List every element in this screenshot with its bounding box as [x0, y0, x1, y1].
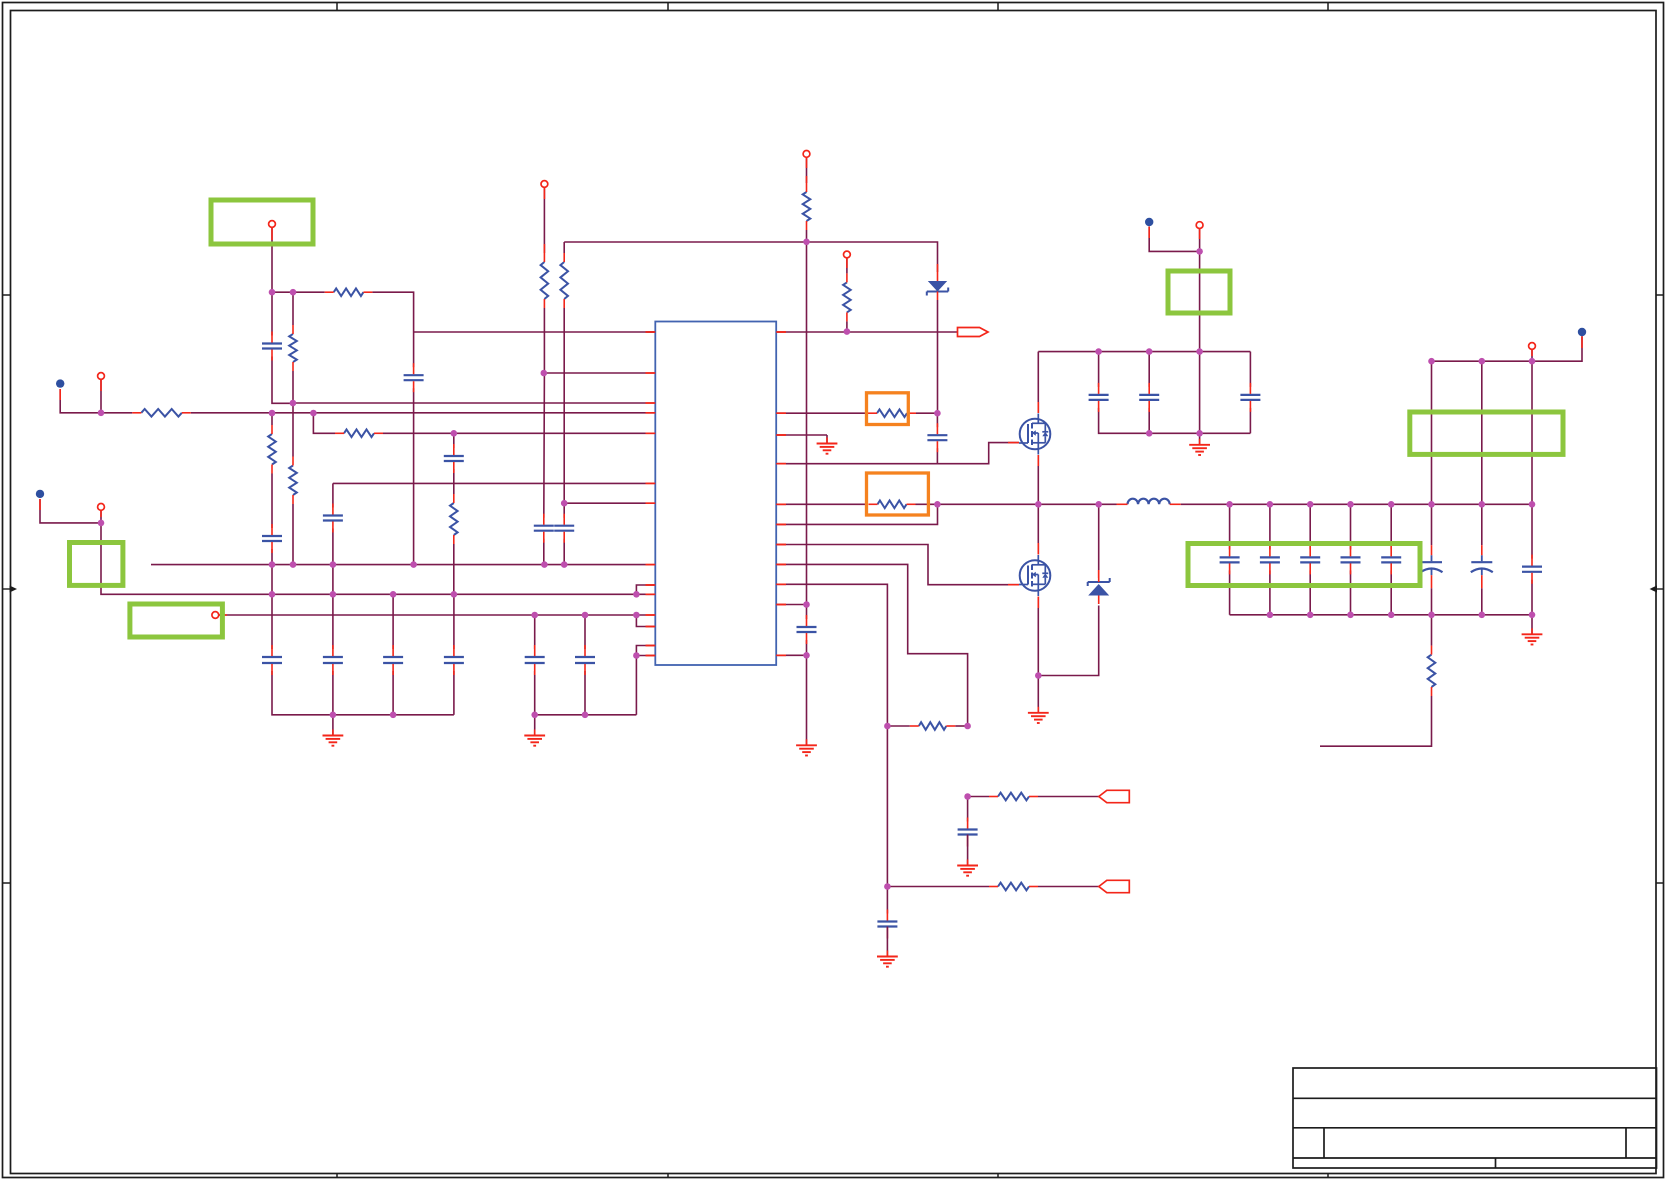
node N4: [1578, 328, 1586, 336]
capless resistor R11: [843, 282, 851, 312]
wire bankcap2 top: [1269, 504, 1271, 549]
pin PC7: [844, 251, 851, 258]
wire x534 v: [534, 615, 536, 649]
highlight box C: [130, 604, 223, 637]
wire SS net: [414, 331, 646, 333]
capacitor C3: [323, 514, 343, 516]
junction J17: [269, 591, 276, 598]
wire net1 pin stub: [646, 412, 656, 414]
pin PC5: [541, 181, 548, 188]
wire x967 cap: [967, 797, 969, 822]
wire x272 cap: [271, 594, 273, 649]
junction J66: [1529, 612, 1536, 619]
wire out1 net: [968, 796, 989, 798]
capacitor C23: [1300, 556, 1320, 558]
wire bankcap4 top: [1350, 504, 1352, 549]
junction J62: [1347, 612, 1354, 619]
junction J46: [1146, 430, 1153, 437]
junction J29: [582, 712, 589, 719]
highlight box G: [867, 393, 909, 425]
junction J31: [844, 328, 851, 335]
capacitor C8: [262, 656, 282, 658]
wire vin down: [1199, 251, 1201, 433]
wire lg net: [776, 545, 1019, 585]
op-amp U1 regulator IC body: [655, 322, 776, 666]
resistor R15: [919, 722, 946, 730]
resistor R13: [877, 409, 907, 417]
wire net2 pin stub: [646, 593, 656, 595]
junction J25: [633, 652, 640, 659]
wire out2 net: [887, 886, 989, 888]
wire out1 net2: [1038, 796, 1099, 798]
junction J37: [964, 723, 971, 730]
wire loop v1: [271, 292, 273, 335]
junction J58: [1479, 358, 1486, 365]
junction J54: [1428, 501, 1435, 508]
junction J26: [330, 712, 337, 719]
junction J33: [803, 652, 810, 659]
wire hook3: [636, 646, 655, 656]
wire out right top: [1531, 349, 1533, 361]
port P1: [958, 328, 989, 337]
resistor R17: [998, 883, 1029, 891]
node N2: [36, 490, 44, 498]
capless resistor R5: [268, 434, 276, 465]
wire q1 source: [1037, 455, 1039, 504]
pin PC2: [98, 373, 105, 380]
wire x907 net: [776, 564, 967, 726]
junction J39: [884, 883, 891, 890]
wire outcap bot: [1531, 580, 1533, 615]
capacitor C1: [262, 342, 282, 344]
wire vsense1b: [955, 725, 967, 727]
highlight box B: [70, 543, 123, 586]
capacitor C19: [1139, 394, 1159, 396]
capless resistor R10: [803, 192, 811, 221]
wire x313: [313, 413, 335, 433]
wire x806 gnd: [806, 640, 808, 655]
junction J19: [390, 591, 397, 598]
ground GND2: [534, 715, 536, 736]
wire x887 cap: [886, 887, 888, 914]
wire vin stem: [1199, 229, 1201, 252]
wire vsense1: [887, 725, 909, 727]
wire vin cap2b: [1148, 408, 1150, 433]
junction J55: [1479, 501, 1486, 508]
wire port3 stem: [271, 227, 273, 292]
capless resistor R9: [560, 262, 568, 299]
wire rt net: [776, 412, 866, 414]
junction J60: [1267, 612, 1274, 619]
wire x887 low: [886, 726, 888, 887]
pin PC1: [269, 221, 276, 228]
capacitor C21: [1220, 556, 1240, 558]
title block: [1293, 1068, 1657, 1168]
wire pin vcc2: [776, 604, 806, 606]
wire x564 low: [563, 539, 565, 565]
junction J42: [1035, 672, 1042, 679]
wire port1 stem: [100, 380, 102, 413]
wire bankcap4 bot: [1350, 570, 1352, 614]
capacitor C22: [1260, 556, 1280, 558]
wire x332 v: [332, 483, 334, 507]
junction J45: [1196, 348, 1203, 355]
capacitor C20: [1240, 394, 1260, 396]
wire sw bus: [916, 503, 1117, 505]
capacitor C9: [323, 656, 343, 658]
junction J12: [290, 561, 297, 568]
ground GND1: [332, 715, 334, 736]
junction J30: [803, 239, 810, 246]
wire loop v1b: [272, 357, 293, 404]
highlight box H: [867, 473, 929, 515]
wire hook4 down: [635, 656, 637, 715]
wire x937 low: [936, 448, 938, 464]
wire x413 low: [413, 388, 415, 564]
junction J51: [1307, 501, 1314, 508]
junction J52: [1347, 501, 1354, 508]
junction J34: [934, 410, 941, 417]
pin stubs right: [776, 331, 786, 333]
wire out2 net2: [1038, 886, 1099, 888]
wire out bottom bus: [1230, 614, 1532, 616]
wire vcc bus top: [564, 242, 937, 272]
wire vin cap3: [1249, 352, 1251, 387]
ground GND6: [1199, 433, 1201, 445]
wire x534 gnd: [535, 671, 637, 715]
polarized capacitor C27: [1471, 561, 1492, 563]
ground GND4: [806, 655, 808, 745]
wire bankcap1 bot: [1229, 570, 1231, 614]
junction J24: [633, 612, 640, 619]
wire vin cap3b: [1249, 408, 1251, 433]
wire x413 cap: [413, 332, 415, 367]
pin PC4: [212, 612, 219, 619]
junction J22: [531, 612, 538, 619]
pin PC8: [1196, 222, 1203, 229]
junction J1: [269, 289, 276, 296]
resistor R2: [334, 288, 364, 296]
wire q1 drain: [1037, 352, 1039, 413]
border zone ticks: [336, 3, 338, 11]
wire vin cap1: [1098, 352, 1100, 387]
pin PC3: [98, 504, 105, 511]
capacitor C18: [1089, 394, 1109, 396]
wire port4 stem: [543, 187, 545, 253]
wire x332 elbow: [333, 482, 646, 484]
wire vout elbow: [1432, 336, 1583, 361]
wire x393 gnd: [392, 671, 394, 715]
wire q2 drain: [1037, 504, 1039, 554]
wire x1431 v: [1431, 361, 1433, 504]
highlight box E: [1410, 412, 1563, 454]
capacitor C24: [1341, 556, 1361, 558]
junction J41: [1095, 501, 1102, 508]
junction J16: [561, 561, 568, 568]
junction J61: [1307, 612, 1314, 619]
capacitor C7: [554, 525, 574, 527]
resistor R3: [344, 430, 374, 438]
wire vin cap2: [1148, 352, 1150, 387]
wire x453 cap: [453, 433, 455, 448]
border centering arrow right: [1650, 586, 1658, 593]
junction J3: [98, 410, 105, 417]
wire x806 main: [806, 230, 808, 619]
capacitor C6: [534, 525, 554, 527]
wire x585 v: [584, 615, 586, 649]
wire loop right: [372, 292, 413, 332]
junction J48: [1196, 248, 1203, 255]
junction J21: [633, 591, 640, 598]
capless resistor R6: [289, 466, 297, 495]
capless resistor R8: [541, 262, 549, 299]
wire polcap2 bot: [1481, 588, 1483, 615]
inductor L1: [1128, 499, 1170, 505]
wire port2 stem: [100, 511, 102, 523]
wire x453 mid: [453, 469, 455, 494]
capacitor C25: [1381, 556, 1401, 558]
pin stubs left: [646, 331, 656, 333]
resistor R1: [141, 409, 182, 417]
capless resistor R12: [1428, 655, 1436, 687]
junction J64: [1428, 612, 1435, 619]
junction J6: [541, 370, 548, 377]
junction J43: [1095, 348, 1102, 355]
border centering arrow left: [10, 586, 18, 593]
wire x585 gnd: [584, 671, 586, 715]
wire vin bus: [1038, 351, 1250, 353]
wire x564 mid: [563, 308, 565, 518]
capacitor C15: [927, 434, 947, 436]
capless resistor R7: [450, 503, 458, 535]
wire port7 stem: [846, 258, 848, 274]
wire sw bus2: [1181, 503, 1532, 505]
wire x293 v: [292, 292, 294, 325]
wire bankcap2 bot: [1269, 570, 1271, 614]
wire net1 mid: [191, 412, 646, 414]
junction J53: [1388, 501, 1395, 508]
wire hook2: [636, 615, 655, 627]
wire loop top: [272, 291, 325, 293]
junction J2: [290, 289, 297, 296]
wire zener1 low: [937, 300, 939, 413]
wire pin hook937: [776, 504, 937, 524]
resistor R14: [878, 501, 907, 509]
capacitor C5: [444, 455, 464, 457]
wire FB net: [293, 402, 646, 404]
wire zener2 low: [1038, 606, 1098, 676]
wire x332 cap2: [332, 594, 334, 649]
wire x332 gnd2: [332, 671, 334, 715]
wire bankcap5 bot: [1390, 570, 1392, 614]
zener diode D2: [1088, 581, 1110, 583]
wire hook1: [636, 585, 655, 594]
wire x1482 v: [1481, 361, 1483, 504]
junction J56: [1529, 501, 1536, 508]
capacitor C10: [383, 656, 403, 658]
resistor R16: [998, 793, 1029, 801]
wire x453 cap2: [453, 594, 455, 649]
wire bankcap5 top: [1390, 504, 1392, 549]
wire x272 low: [271, 549, 273, 594]
wire R5 bottom: [271, 474, 273, 529]
junction J35: [934, 501, 941, 508]
capacitor C14: [797, 626, 817, 628]
junction J23: [582, 612, 589, 619]
wire x887 net: [776, 584, 887, 726]
capacitor C2: [262, 535, 282, 537]
wire net1 to pin: [101, 412, 132, 414]
junction J11: [269, 561, 276, 568]
junction J57: [1428, 358, 1435, 365]
wire x272 r5top: [271, 413, 273, 425]
junction J65: [1479, 612, 1486, 619]
port P2: [1099, 790, 1130, 802]
wire pin agnd: [776, 654, 806, 656]
junction J47: [1196, 430, 1203, 437]
junction J38: [964, 793, 971, 800]
junction J7: [451, 430, 458, 437]
wire outcap top: [1531, 504, 1533, 558]
transistor Q2: [1020, 560, 1051, 591]
capacitor C17: [877, 920, 897, 922]
junction J14: [410, 561, 417, 568]
wire boot net: [776, 331, 957, 333]
junction J10: [98, 520, 105, 527]
wire bus564: [151, 564, 646, 566]
junction J50: [1267, 501, 1274, 508]
junction J32: [803, 601, 810, 608]
wire vin dot elbow: [1149, 227, 1199, 252]
highlight box A: [211, 200, 313, 244]
ground GND9: [967, 835, 969, 866]
junction J4: [269, 410, 276, 417]
wire bankcap3 bot: [1309, 570, 1311, 614]
junction J20: [451, 591, 458, 598]
wire x393 v: [392, 594, 394, 649]
wire x332 low: [332, 529, 334, 595]
junction J15: [541, 561, 548, 568]
capacitor C11: [444, 656, 464, 658]
junction J59: [1529, 358, 1536, 365]
pin PC6: [803, 151, 810, 158]
wire comp2 net: [776, 443, 1019, 464]
wire x1532 v: [1531, 361, 1533, 504]
junction J49: [1226, 501, 1233, 508]
wire port5 lead: [219, 614, 646, 616]
capacitor C16: [958, 828, 978, 830]
wire hook4: [636, 655, 655, 657]
junction J18: [330, 591, 337, 598]
wire en net: [544, 372, 646, 374]
wire polcap1 top: [1431, 504, 1433, 545]
wire gnd pin net: [776, 434, 827, 436]
node N3: [1145, 218, 1153, 226]
wire x293 mid: [292, 371, 294, 457]
wire bankcap3 top: [1309, 504, 1311, 549]
capacitor C12: [525, 656, 545, 658]
wire feedback tail: [1320, 696, 1432, 746]
wire q2 source: [1037, 597, 1039, 676]
junction J27: [390, 712, 397, 719]
junction J28: [531, 712, 538, 719]
wire x544 mid: [543, 308, 546, 518]
junction J63: [1388, 612, 1395, 619]
wire x272 gnd: [272, 671, 454, 715]
wire x564 res: [563, 242, 565, 253]
wire x544 low: [543, 539, 545, 565]
polarized capacitor C26: [1421, 561, 1442, 563]
ground GND3: [826, 435, 828, 444]
capacitor C28: [1522, 565, 1542, 567]
zener diode D1: [928, 281, 947, 292]
wire VIN1 elbow: [60, 389, 101, 413]
wire polcap2 top: [1481, 504, 1483, 545]
capless resistor R4: [289, 334, 297, 362]
wire zener2 v: [1098, 504, 1100, 570]
wire ilim net: [776, 503, 866, 505]
node N1: [56, 379, 64, 387]
junction J5: [310, 410, 317, 417]
wire net2 down: [101, 523, 646, 594]
wire R11 low: [846, 321, 848, 331]
capacitor C13: [575, 656, 595, 658]
highlight box F: [1188, 544, 1420, 586]
wire feedback res: [1431, 615, 1433, 646]
junction J40: [1035, 501, 1042, 508]
wire x453 low: [453, 544, 455, 594]
wire vcc pin net: [564, 502, 645, 504]
capacitor C4: [404, 374, 424, 376]
highlight box D: [1168, 271, 1230, 313]
transistor Q1: [1020, 419, 1051, 450]
wire SS pin stub: [646, 331, 656, 333]
pin PC9: [1529, 343, 1536, 350]
junction J44: [1146, 348, 1153, 355]
junction J9: [561, 500, 568, 507]
wire polcap1 bot: [1431, 588, 1433, 615]
ground GND7: [1531, 615, 1533, 635]
junction J36: [884, 723, 891, 730]
wire vin cap1b: [1099, 408, 1251, 433]
port P3: [1099, 880, 1130, 892]
wire comp net: [383, 432, 646, 434]
wire x293 low: [292, 504, 294, 565]
junction J8: [290, 400, 297, 407]
wire bankcap1 top: [1229, 504, 1231, 549]
wire rt net2: [916, 412, 937, 414]
wire x453 gnd: [453, 671, 455, 715]
wire port6 stem: [806, 157, 808, 183]
ground GND5: [1037, 676, 1039, 713]
wire x937 cap: [936, 413, 938, 427]
junction J13: [330, 561, 337, 568]
wire VIN2 elbow: [40, 499, 101, 523]
ground GND8: [886, 927, 888, 957]
